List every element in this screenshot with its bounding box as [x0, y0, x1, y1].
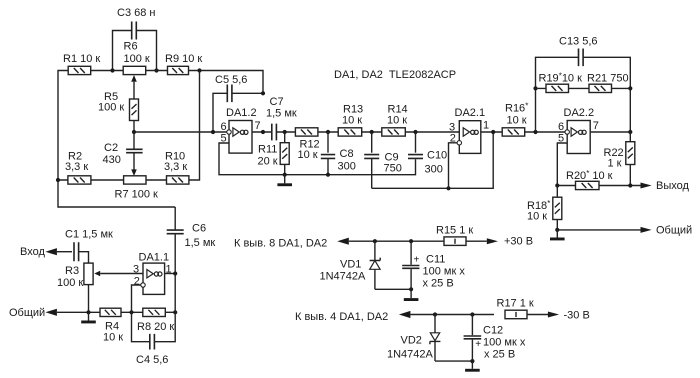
svg-text:1N4742A: 1N4742A [387, 349, 434, 361]
capacitor C2 [133, 132, 135, 149]
node C11 bottom [409, 287, 413, 291]
node R5 bottom [132, 130, 136, 134]
svg-text:R8 20 к: R8 20 к [137, 321, 174, 333]
node C5 left bottom [211, 130, 215, 134]
svg-text:100 мк х: 100 мк х [483, 337, 526, 349]
node R11 top [283, 130, 287, 134]
svg-text:R19*10 к: R19*10 к [539, 72, 583, 85]
svg-text:-30 В: -30 В [564, 310, 590, 322]
svg-text:3,3 к: 3,3 к [65, 161, 88, 173]
svg-text:7: 7 [255, 120, 261, 132]
node C9 top [370, 130, 374, 134]
arrow to pin 4 [399, 311, 411, 318]
wire VD1 to C11 bottom [375, 288, 411, 290]
svg-text:R1 10 к: R1 10 к [63, 53, 100, 65]
node R2 left [56, 178, 60, 182]
svg-text:1,5 мк: 1,5 мк [266, 108, 297, 120]
wire DA2.1 pin2 feedback [449, 143, 458, 189]
svg-text:C4 5,6: C4 5,6 [136, 354, 168, 366]
capacitor C13 [579, 49, 584, 67]
svg-text:R3: R3 [65, 265, 79, 277]
wire DA2.2 pin5 down [557, 143, 567, 186]
node R3 bottom [86, 310, 90, 314]
svg-text:C5 5,6: C5 5,6 [215, 74, 247, 86]
capacitor C8 [327, 132, 329, 153]
resistor R15 [444, 237, 466, 246]
wire -30V rail [410, 314, 548, 316]
svg-text:3: 3 [449, 121, 455, 133]
wire DA1.2 output [252, 131, 272, 133]
zener diode VD1 [374, 241, 376, 260]
svg-text:C1 1,5 мк: C1 1,5 мк [65, 229, 113, 241]
common arrow left [45, 309, 57, 316]
output arrow Выход [641, 183, 652, 189]
common arrow right [641, 227, 652, 233]
resistor R1 [68, 66, 91, 74]
wire C1 to R3 [79, 252, 89, 263]
potentiometer R3 [84, 263, 93, 285]
svg-text:1N4742A: 1N4742A [320, 270, 367, 282]
wire VD2 to C12 bottom [435, 360, 472, 362]
wire R19 row [536, 87, 631, 89]
ground below R18 [550, 230, 565, 241]
svg-text:DA2.2: DA2.2 [564, 107, 595, 119]
svg-text:C13 5,6: C13 5,6 [559, 36, 598, 48]
svg-text:C8: C8 [340, 148, 354, 160]
svg-text:10 к: 10 к [342, 115, 362, 127]
node DA2.2 output [628, 130, 632, 134]
svg-text:750: 750 [384, 163, 402, 175]
wire C13 left vertical [536, 57, 631, 132]
wire DA1.1 pin2 [132, 285, 141, 312]
wire R16 to DA2.2 pin6 [525, 131, 565, 133]
resistor R14 [382, 128, 406, 136]
wire C3 bridge [113, 31, 157, 71]
svg-text:1: 1 [483, 120, 489, 132]
ground below R3 [81, 312, 96, 323]
arrow to pin 8 [337, 238, 349, 245]
resistor R17 [505, 310, 527, 319]
wire R5 to node [133, 121, 135, 133]
svg-text:7: 7 [593, 120, 599, 132]
zener diode VD2 [434, 315, 436, 333]
wire R3 bottom [88, 285, 90, 313]
svg-text:К выв. 8 DA1, DA2: К выв. 8 DA1, DA2 [234, 238, 327, 250]
svg-text:х 25 В: х 25 В [484, 349, 515, 361]
wire R8 right [165, 311, 175, 313]
svg-text:3,3 к: 3,3 к [164, 161, 187, 173]
svg-text:+30 В: +30 В [504, 236, 533, 248]
wire input to C1 [57, 251, 72, 253]
wire R9 right to C5 corner [189, 71, 264, 94]
svg-text:100 мк х: 100 мк х [423, 266, 466, 278]
resistor R22 [629, 132, 631, 142]
svg-text:10 к: 10 к [387, 115, 407, 127]
wire R2 row [58, 71, 200, 181]
node DA2.1 output [491, 130, 495, 134]
wire common right [557, 229, 640, 231]
node R8 right [173, 310, 177, 314]
node C3 left [110, 68, 114, 72]
resistor R12 [295, 128, 318, 136]
wire R6 to R9 [146, 70, 168, 72]
capacitor C11 [410, 241, 412, 265]
potentiometer R6 [123, 66, 146, 74]
capacitor C3 [132, 22, 137, 40]
wire C4 bridge [132, 312, 176, 341]
op-amp DA1.1 [141, 263, 165, 294]
svg-text:R15 1 к: R15 1 к [436, 225, 473, 237]
resistor R13 [338, 128, 362, 136]
svg-text:R11: R11 [258, 144, 277, 156]
wire DA2.2 output [590, 131, 630, 133]
svg-text:10 к: 10 к [103, 332, 123, 344]
svg-text:6: 6 [558, 121, 564, 133]
wire DA1.1 output [165, 273, 176, 275]
svg-text:VD2: VD2 [401, 335, 422, 347]
capacitor C4 [150, 334, 155, 350]
wire feedback rail C9 to DA2.1 output [372, 132, 494, 188]
svg-text:6: 6 [221, 121, 227, 133]
node C12 top [470, 312, 474, 316]
wire DA1.2 pin5 to ground rail [219, 143, 416, 175]
capacitor C10 [415, 132, 417, 153]
svg-text:х 25 В: х 25 В [423, 278, 454, 290]
node pin5 R18 [555, 183, 559, 187]
svg-text:430: 430 [103, 154, 121, 166]
wire node to DA1.2 pin6 [134, 131, 227, 133]
wire R12 to R13 [318, 131, 338, 133]
resistor R8 [143, 308, 166, 316]
wire C5 bridge [213, 93, 263, 132]
svg-text:300: 300 [425, 164, 443, 176]
svg-text:20 к: 20 к [258, 156, 278, 168]
svg-text:10 к: 10 к [527, 210, 547, 222]
wire C7 to R12 [276, 131, 295, 133]
svg-text:C9: C9 [385, 151, 399, 163]
node R9 right [197, 68, 201, 72]
capacitor C12 [471, 315, 473, 336]
svg-text:DA2.1: DA2.1 [455, 107, 486, 119]
node feedback pin2 [446, 186, 450, 190]
resistor R18 [556, 186, 558, 198]
svg-text:R16*: R16* [505, 102, 528, 115]
node R4 R8 junction [129, 310, 133, 314]
wire R14 to DA2.1 [405, 131, 459, 133]
node C8 bottom [326, 173, 330, 177]
svg-text:R6: R6 [124, 41, 138, 53]
svg-text:DA1.1: DA1.1 [139, 252, 170, 264]
node C10 top [413, 130, 417, 134]
wire +30V rail [349, 240, 487, 242]
svg-text:VD1: VD1 [340, 259, 361, 271]
node R22 bottom [628, 183, 632, 187]
svg-text:R9 10 к: R9 10 к [165, 53, 202, 65]
resistor R11 [284, 132, 286, 143]
node C11 top [409, 239, 413, 243]
input arrow [45, 248, 57, 255]
svg-text:R17 1 к: R17 1 к [497, 298, 534, 310]
DA2.1 pin2 circle [457, 141, 461, 145]
svg-text:1,5 мк: 1,5 мк [185, 237, 216, 249]
wire C6 vertical [174, 207, 176, 312]
ground below R11 [277, 175, 292, 187]
potentiometer R7 [124, 176, 146, 184]
svg-text:+: + [475, 339, 481, 350]
svg-text:+: + [414, 254, 420, 265]
svg-text:Общий: Общий [9, 307, 45, 319]
resistor R9 [168, 66, 189, 74]
svg-text:C10: C10 [427, 149, 447, 161]
svg-text:R7 100 к: R7 100 к [115, 189, 159, 201]
node output junction [261, 130, 265, 134]
svg-text:C11: C11 [426, 254, 445, 266]
node C12 bottom [470, 359, 474, 363]
ground below C11 [404, 289, 419, 301]
node VD1 top [373, 239, 377, 243]
node C3 right [154, 68, 158, 72]
svg-text:DA1, DA2 TLE2082ACP: DA1, DA2 TLE2082ACP [334, 69, 456, 81]
capacitor C6 [167, 230, 184, 234]
capacitor C1 [74, 242, 79, 261]
svg-text:10 к: 10 к [298, 149, 318, 161]
capacitor C9 [371, 132, 373, 153]
wire R1 to R6 [91, 70, 124, 72]
svg-text:DA1.2: DA1.2 [226, 107, 257, 119]
R3 wiper arrow [94, 271, 100, 277]
resistor R4 [100, 308, 121, 316]
svg-text:C6: C6 [192, 223, 206, 235]
arrow -30V [548, 312, 559, 318]
wire R1 left drop [58, 71, 175, 208]
node VD2 top [433, 312, 437, 316]
resistor R16 [502, 128, 525, 136]
svg-text:C12: C12 [483, 325, 503, 337]
svg-text:100 к: 100 к [124, 53, 150, 65]
svg-text:3: 3 [133, 264, 139, 276]
resistor R5 [130, 99, 139, 121]
svg-text:Общий: Общий [656, 224, 692, 236]
svg-text:10 к: 10 к [507, 114, 527, 126]
node R19 row right [628, 86, 632, 90]
svg-text:C7: C7 [270, 96, 284, 108]
resistor R20 [576, 181, 600, 189]
node R19 row left [533, 86, 537, 90]
resistor R21 [589, 84, 612, 92]
op-amp DA2.1 [459, 121, 481, 154]
op-amp DA2.2 [565, 121, 590, 154]
op-amp DA1.2 [227, 121, 252, 154]
node R18 bottom [555, 228, 559, 232]
resistor R19 [546, 84, 569, 92]
ground below C12 [465, 361, 480, 372]
svg-text:К выв. 4 DA1, DA2: К выв. 4 DA1, DA2 [295, 311, 388, 323]
svg-text:Вход: Вход [20, 246, 45, 258]
wire R13 to R14 [362, 131, 382, 133]
svg-text:R20* 10 к: R20* 10 к [566, 169, 613, 182]
node R11 bottom [283, 173, 287, 177]
wire R4 to R8 [121, 311, 143, 313]
wire DA2.1 output to R16 [481, 131, 503, 133]
wire R20 row [557, 185, 640, 187]
capacitor C5 [227, 85, 232, 103]
resistor R10 [167, 176, 189, 184]
resistor R2 [68, 176, 91, 184]
R6 wiper arrow [131, 75, 137, 82]
svg-text:C2: C2 [104, 142, 118, 154]
svg-text:100 к: 100 к [98, 102, 124, 114]
node C5 right [261, 91, 265, 95]
svg-text:C3 68 н: C3 68 н [117, 7, 155, 19]
capacitor C7 [272, 124, 277, 141]
node DA1.1 output [173, 271, 177, 275]
node pin6 junction [533, 130, 537, 134]
node C8 top [326, 130, 330, 134]
svg-text:R21 750: R21 750 [587, 73, 629, 85]
C2 wiper arrow onto R7 [131, 169, 137, 176]
svg-text:300: 300 [338, 161, 356, 173]
arrow +30V [487, 238, 498, 244]
svg-text:100 к: 100 к [57, 277, 83, 289]
wire common to R4 [57, 311, 100, 313]
svg-text:Выход: Выход [656, 180, 689, 192]
svg-text:1 к: 1 к [608, 158, 622, 170]
